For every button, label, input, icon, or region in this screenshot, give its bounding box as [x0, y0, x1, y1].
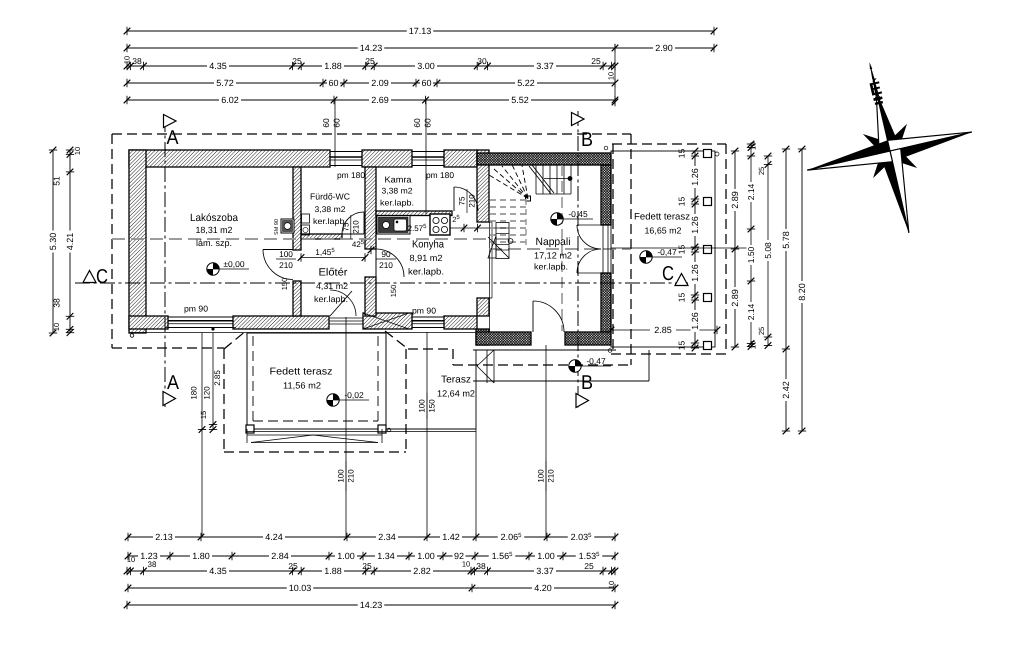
svg-text:3.00: 3.00 [417, 61, 435, 71]
svg-text:38: 38 [148, 560, 157, 569]
svg-text:14.23: 14.23 [360, 43, 383, 53]
svg-text:15: 15 [677, 293, 687, 303]
svg-text:25: 25 [288, 561, 298, 571]
svg-text:1.80: 1.80 [192, 551, 210, 561]
svg-text:ker.lapb.: ker.lapb. [534, 262, 568, 272]
svg-text:60: 60 [321, 118, 331, 128]
svg-text:75: 75 [341, 222, 350, 231]
svg-text:11,56 m2: 11,56 m2 [283, 381, 321, 391]
svg-text:15: 15 [677, 245, 687, 255]
svg-text:17.13: 17.13 [409, 26, 432, 36]
svg-text:10: 10 [127, 555, 135, 564]
svg-text:120: 120 [203, 386, 212, 400]
svg-text:75: 75 [458, 196, 467, 205]
svg-text:150: 150 [389, 285, 398, 298]
svg-text:2.85: 2.85 [654, 325, 672, 335]
svg-text:8.20: 8.20 [797, 283, 807, 301]
svg-text:-0,47: -0,47 [586, 356, 606, 366]
svg-text:210: 210 [351, 220, 360, 234]
svg-text:lám. szp.: lám. szp. [196, 238, 232, 248]
svg-text:Fedett terasz: Fedett terasz [634, 212, 690, 223]
svg-text:2.14: 2.14 [746, 183, 756, 200]
svg-text:18,31 m2: 18,31 m2 [196, 225, 233, 235]
svg-text:60: 60 [421, 78, 431, 88]
svg-text:C: C [662, 263, 674, 285]
svg-text:1.50: 1.50 [746, 246, 756, 263]
svg-text:A: A [167, 372, 180, 394]
svg-text:38: 38 [476, 561, 486, 571]
svg-text:SM 90: SM 90 [274, 219, 280, 235]
svg-text:10: 10 [749, 341, 758, 349]
svg-text:2.89: 2.89 [730, 191, 740, 209]
svg-text:100: 100 [418, 399, 427, 413]
svg-text:25: 25 [584, 561, 594, 571]
svg-text:4.20: 4.20 [534, 583, 552, 593]
svg-text:10: 10 [73, 147, 82, 155]
svg-text:15: 15 [677, 341, 687, 351]
svg-text:2.13: 2.13 [155, 532, 173, 542]
svg-text:1.00: 1.00 [337, 551, 355, 561]
svg-text:Fürdő-WC: Fürdő-WC [310, 192, 351, 202]
svg-text:25: 25 [591, 56, 601, 66]
svg-text:2.42: 2.42 [781, 381, 791, 399]
svg-text:Kamra: Kamra [385, 175, 412, 185]
svg-text:60: 60 [412, 118, 422, 128]
svg-text:180: 180 [190, 386, 199, 400]
svg-text:10: 10 [123, 56, 132, 64]
svg-text:ker.lapb.: ker.lapb. [408, 267, 444, 277]
svg-text:2.85: 2.85 [213, 370, 222, 386]
svg-text:25: 25 [362, 561, 372, 571]
svg-text:1.26: 1.26 [690, 168, 700, 186]
svg-text:-0,02: -0,02 [344, 390, 364, 400]
svg-text:5.78: 5.78 [781, 231, 791, 249]
svg-text:10: 10 [607, 72, 616, 80]
svg-text:5.22: 5.22 [517, 78, 535, 88]
svg-text:60: 60 [328, 78, 338, 88]
svg-text:25: 25 [365, 56, 375, 66]
svg-text:1.00: 1.00 [417, 551, 435, 561]
svg-text:Fedett terasz: Fedett terasz [270, 367, 333, 378]
svg-text:2.82: 2.82 [413, 566, 431, 576]
svg-text:6.02: 6.02 [221, 95, 239, 105]
svg-text:4,31 m2: 4,31 m2 [316, 281, 348, 291]
svg-text:51: 51 [52, 176, 62, 186]
svg-text:2.69: 2.69 [371, 95, 389, 105]
svg-text:12,64 m2: 12,64 m2 [437, 389, 475, 399]
svg-text:1.26: 1.26 [690, 216, 700, 234]
svg-text:Nappali: Nappali [536, 236, 571, 248]
svg-text:15: 15 [677, 197, 687, 207]
svg-text:pm 90: pm 90 [412, 306, 436, 316]
svg-text:1.26: 1.26 [690, 312, 700, 330]
svg-text:210: 210 [347, 469, 356, 483]
svg-text:2.34: 2.34 [378, 532, 396, 542]
svg-text:4.35: 4.35 [209, 566, 227, 576]
svg-text:B: B [581, 129, 593, 151]
svg-text:60: 60 [332, 118, 342, 128]
svg-text:10: 10 [462, 560, 470, 569]
svg-text:15: 15 [199, 411, 208, 419]
svg-text:90: 90 [381, 249, 391, 259]
svg-text:1.42: 1.42 [442, 532, 460, 542]
svg-text:2.89: 2.89 [730, 289, 740, 307]
svg-text:150: 150 [428, 399, 437, 413]
svg-text:Konyha: Konyha [412, 239, 444, 251]
svg-text:38: 38 [132, 56, 142, 66]
svg-text:3.37: 3.37 [536, 566, 554, 576]
svg-text:210: 210 [468, 194, 477, 208]
svg-text:30: 30 [477, 56, 487, 66]
svg-text:1.88: 1.88 [324, 61, 342, 71]
svg-text:25: 25 [757, 327, 766, 335]
svg-text:1.26: 1.26 [690, 264, 700, 282]
svg-text:pm 180: pm 180 [337, 170, 365, 180]
svg-text:100: 100 [337, 469, 346, 483]
svg-text:8,91 m2: 8,91 m2 [410, 253, 443, 263]
svg-text:210: 210 [379, 260, 393, 270]
svg-text:150: 150 [280, 278, 289, 291]
svg-text:60: 60 [423, 118, 433, 128]
svg-text:Terasz: Terasz [441, 375, 471, 386]
svg-text:1.00: 1.00 [537, 551, 555, 561]
svg-text:10.03: 10.03 [289, 583, 312, 593]
svg-text:100: 100 [537, 469, 546, 483]
svg-text:1.88: 1.88 [324, 566, 342, 576]
svg-text:15: 15 [677, 149, 687, 159]
svg-text:Lakószoba: Lakószoba [190, 212, 238, 224]
svg-text:210: 210 [279, 260, 293, 270]
svg-text:25: 25 [757, 167, 766, 175]
svg-text:1.34: 1.34 [377, 551, 395, 561]
svg-text:ker.lapb.: ker.lapb. [380, 199, 414, 208]
svg-text:5.52: 5.52 [511, 95, 529, 105]
svg-text:5.30: 5.30 [48, 233, 58, 251]
svg-text:2.14: 2.14 [746, 303, 756, 320]
svg-text:5.08: 5.08 [763, 242, 773, 259]
svg-text:3,38 m2: 3,38 m2 [315, 205, 346, 214]
svg-text:5.72: 5.72 [216, 78, 234, 88]
svg-text:25: 25 [292, 56, 302, 66]
svg-text:±0,00: ±0,00 [223, 259, 244, 269]
svg-text:-0,45: -0,45 [568, 209, 588, 219]
svg-text:4.21: 4.21 [65, 233, 75, 251]
svg-text:pm 180: pm 180 [426, 170, 454, 180]
svg-text:2.84: 2.84 [271, 551, 289, 561]
svg-text:10: 10 [749, 142, 758, 150]
svg-text:210: 210 [547, 469, 556, 483]
svg-text:100: 100 [279, 249, 293, 259]
svg-text:14.23: 14.23 [360, 600, 383, 610]
svg-text:4.35: 4.35 [209, 61, 227, 71]
svg-text:A: A [167, 127, 180, 149]
svg-text:2.09: 2.09 [371, 78, 389, 88]
svg-text:3.37: 3.37 [536, 61, 554, 71]
svg-text:pm 90: pm 90 [184, 304, 208, 314]
svg-text:B: B [581, 372, 593, 394]
svg-text:17,12 m2: 17,12 m2 [534, 251, 572, 261]
svg-text:-0,47: -0,47 [657, 247, 677, 257]
svg-text:3,38 m2: 3,38 m2 [382, 187, 413, 196]
svg-text:2.90: 2.90 [655, 43, 673, 53]
svg-text:10: 10 [52, 323, 61, 331]
svg-text:38: 38 [52, 298, 62, 308]
svg-text:Előtér: Előtér [319, 267, 349, 279]
svg-text:C: C [96, 266, 108, 288]
svg-text:ker.lapb.: ker.lapb. [314, 294, 348, 304]
svg-text:4.24: 4.24 [265, 532, 283, 542]
svg-text:16,65 m2: 16,65 m2 [645, 226, 682, 236]
